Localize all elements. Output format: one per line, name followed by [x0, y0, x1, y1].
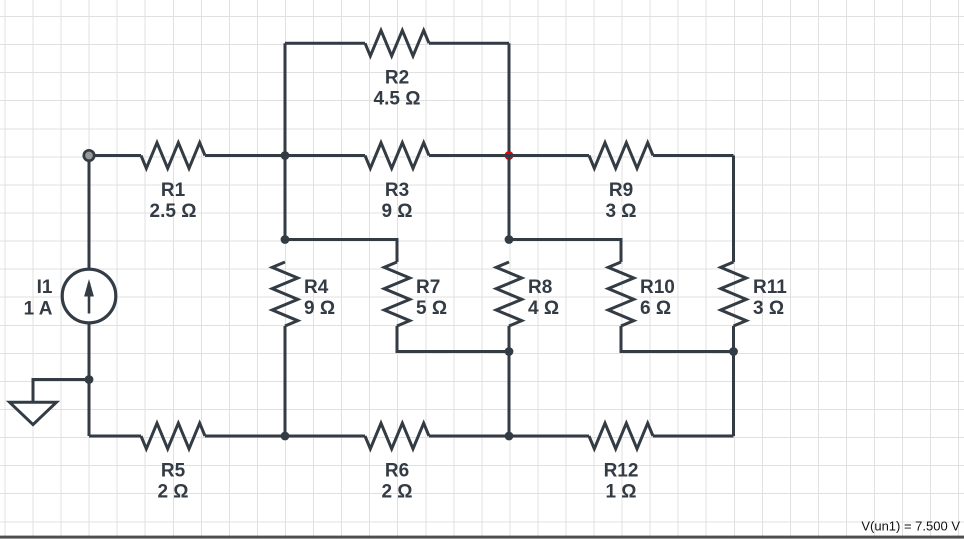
svg-text:2.5 Ω: 2.5 Ω	[150, 201, 197, 222]
wire right rail vertical	[732, 156, 735, 437]
wire main row: R9 to right rail	[653, 154, 734, 157]
wire R2 branch right vertical (above node un1)	[508, 43, 511, 155]
junction dot 8	[505, 432, 514, 441]
svg-text:R6: R6	[385, 460, 409, 481]
wire R10 bottom to R11 column	[621, 326, 734, 352]
wire main row: R1 to R3	[205, 154, 365, 157]
resistor R8	[496, 262, 522, 326]
ground	[10, 380, 89, 425]
wire main row: node un1 to R9	[509, 154, 589, 157]
wire main row: terminal to R1	[89, 154, 141, 157]
junction dot 4	[505, 347, 514, 356]
junction dot 1	[281, 151, 290, 160]
svg-text:1 A: 1 A	[24, 299, 53, 320]
svg-text:9 Ω: 9 Ω	[304, 298, 335, 319]
resistor R2	[365, 30, 429, 56]
resistor R5	[141, 423, 205, 449]
svg-text:R10: R10	[640, 277, 675, 298]
svg-text:4.5 Ω: 4.5 Ω	[374, 88, 421, 109]
junction dot 6	[85, 375, 94, 384]
svg-text:3 Ω: 3 Ω	[753, 298, 784, 319]
resistor R9	[589, 143, 653, 169]
junction dot 5	[729, 347, 738, 356]
svg-text:R12: R12	[604, 460, 639, 481]
junction dot 3	[505, 235, 514, 244]
junction dot 2	[281, 235, 290, 244]
resistor R11	[721, 262, 747, 326]
svg-text:V(un1) = 7.500 V: V(un1) = 7.500 V	[861, 519, 960, 534]
resistor R4	[272, 262, 298, 326]
svg-text:2 Ω: 2 Ω	[157, 481, 188, 502]
status bar line	[0, 536, 964, 539]
wire junction row: R8 top to R10 top	[509, 240, 621, 263]
terminal node (gray)	[84, 150, 94, 160]
svg-text:R5: R5	[161, 460, 186, 481]
resistor R10	[608, 262, 634, 326]
resistor R12	[589, 423, 653, 449]
wire node un1 down to R8 junction	[508, 156, 511, 240]
resistor R3	[365, 143, 429, 169]
svg-text:2 Ω: 2 Ω	[381, 481, 412, 502]
wire R2 branch left vertical	[284, 43, 287, 239]
junction dot 7	[281, 432, 290, 441]
svg-text:4 Ω: 4 Ω	[528, 298, 559, 319]
wire R7 bottom to R8 column	[397, 326, 509, 352]
wire R2 branch top left	[285, 42, 365, 45]
svg-text:9 Ω: 9 Ω	[381, 201, 412, 222]
svg-text:R8: R8	[528, 277, 552, 298]
resistor R6	[365, 423, 429, 449]
svg-text:6 Ω: 6 Ω	[640, 298, 671, 319]
wire left rail: terminal to I1	[88, 156, 91, 269]
svg-text:1 Ω: 1 Ω	[605, 481, 636, 502]
svg-text:R4: R4	[304, 277, 329, 298]
wire main row: R3 to node un1	[429, 154, 509, 157]
wire R2 branch top right	[429, 42, 509, 45]
current source I1	[62, 269, 116, 323]
wire left rail: I1 to bottom rail	[88, 324, 91, 437]
wire bottom rail segments	[89, 435, 734, 438]
svg-text:I1: I1	[37, 277, 53, 298]
resistor R1	[141, 143, 205, 169]
svg-text:R2: R2	[385, 67, 409, 88]
svg-text:R1: R1	[161, 180, 186, 201]
resistor R7	[384, 262, 410, 326]
wire R4 bottom lead to bottom rail	[284, 326, 287, 436]
wire R8 bottom lead to bottom rail	[508, 326, 511, 436]
svg-text:R7: R7	[416, 277, 440, 298]
svg-text:R3: R3	[385, 180, 409, 201]
svg-text:5 Ω: 5 Ω	[416, 298, 447, 319]
svg-text:R9: R9	[609, 180, 633, 201]
wire junction row: R4 top to R7 top	[285, 240, 397, 263]
node un1 (red node marker)	[505, 151, 514, 160]
svg-text:3 Ω: 3 Ω	[605, 201, 636, 222]
svg-text:R11: R11	[753, 277, 787, 298]
